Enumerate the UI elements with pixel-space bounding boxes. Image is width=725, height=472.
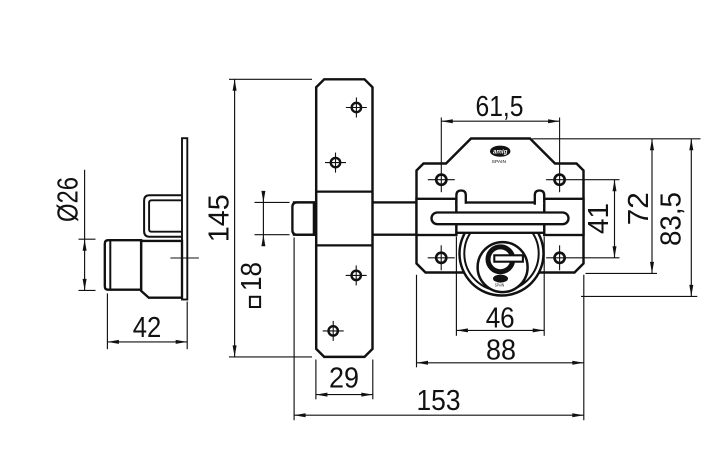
- svg-text:amig: amig: [493, 149, 508, 156]
- bolt bar: [294, 202, 418, 234]
- keeper hole 2: [331, 158, 340, 167]
- bolt guide band left section: [417, 199, 457, 235]
- dim 61,5: [441, 120, 559, 122]
- dim 46: [455, 237, 457, 336]
- side view: bracket outer profile: [144, 195, 182, 236]
- side view: lock body (profile): [141, 241, 182, 298]
- cylinder rose outer circle: [460, 212, 544, 296]
- cylinder brand oval: [493, 275, 508, 283]
- bolt guide central plate: [456, 203, 544, 233]
- svg-text:41: 41: [583, 203, 615, 234]
- side view: cylinder barrel: [105, 240, 141, 290]
- cylinder face circle: [478, 242, 528, 292]
- guide tab right: [535, 191, 544, 205]
- keeper hole 3: [352, 271, 361, 280]
- body hole top-right: [555, 175, 565, 185]
- bolt slot (elongated hole): [432, 213, 569, 225]
- body hole bottom-right: [555, 253, 565, 263]
- dim 42: [106, 293, 108, 349]
- svg-text:83,5: 83,5: [656, 192, 688, 246]
- body hole top-left: [436, 175, 446, 185]
- keyhole slot: [494, 255, 523, 261]
- keyhole ring: [488, 247, 513, 272]
- dim 72: [532, 138, 700, 140]
- cylinder rose inner ring: [464, 216, 538, 290]
- side view: cylinder cap seam: [109, 241, 111, 290]
- dim 145: [229, 78, 312, 80]
- svg-text:SPAIN: SPAIN: [492, 159, 507, 164]
- keeper plate (middle view): [316, 79, 372, 357]
- svg-text:46: 46: [486, 303, 515, 335]
- svg-text:42: 42: [133, 312, 162, 344]
- svg-text:Ø26: Ø26: [53, 177, 85, 222]
- bolt tip: [292, 202, 314, 234]
- dim square-18: [255, 201, 290, 203]
- svg-text:SPAIN: SPAIN: [495, 282, 505, 287]
- svg-text:88: 88: [486, 334, 516, 366]
- keeper plate guide-block lower edge: [316, 244, 372, 246]
- side view: bracket inner profile: [149, 200, 182, 231]
- dim 29: [315, 360, 317, 400]
- svg-text:145: 145: [204, 194, 236, 242]
- svg-text:72: 72: [623, 192, 655, 225]
- lock body back plate: [417, 139, 584, 273]
- dim diameter-26: [79, 238, 96, 240]
- keeper plate guide-block upper edge: [316, 191, 372, 193]
- keeper hole 1: [352, 103, 361, 112]
- svg-text:18: 18: [236, 262, 268, 291]
- svg-text:153: 153: [417, 385, 461, 417]
- body logo oval: [490, 146, 510, 157]
- dim 83,5: [581, 295, 697, 297]
- dim 153: [293, 238, 295, 421]
- svg-text:61,5: 61,5: [476, 91, 524, 123]
- svg-text:29: 29: [329, 363, 359, 395]
- guide tab left: [456, 191, 465, 205]
- dim 88: [416, 275, 418, 368]
- keeper hole 4: [329, 326, 338, 335]
- side view: mounting plate (profile): [182, 138, 187, 299]
- body hole bottom-left: [436, 253, 446, 263]
- dim 41: [614, 180, 616, 258]
- bolt guide band right section: [544, 199, 583, 235]
- side view: cylinder axis centerline tick: [170, 257, 199, 259]
